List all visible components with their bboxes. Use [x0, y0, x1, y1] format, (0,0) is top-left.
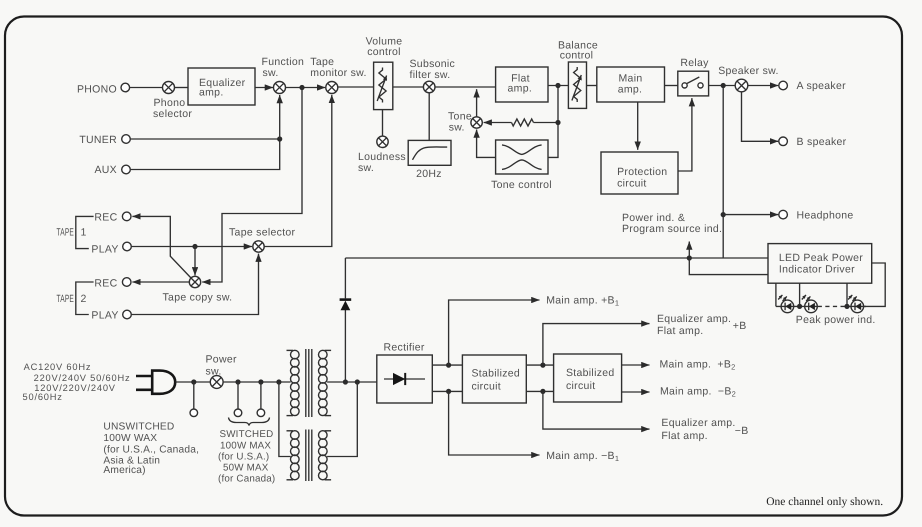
label Volume control: [366, 36, 403, 59]
junction B1 plus: [446, 363, 451, 368]
20Hz highpass filter block: [408, 140, 451, 165]
wire main amp to relay: [665, 85, 678, 87]
wire driver output left to LED rail: [775, 283, 777, 306]
detector diode branch wire lower: [344, 310, 346, 382]
junction after function sw: [299, 85, 304, 90]
transformer T2 secondary winding: [319, 431, 332, 480]
phono selector switch: [163, 82, 175, 94]
label Function sw.: [262, 56, 305, 79]
svg-text:Main amp. −B1: Main amp. −B1: [546, 450, 619, 463]
junction B1 minus: [446, 389, 451, 394]
tone control curves: [502, 145, 542, 170]
svg-text:Flat amp.: Flat amp.: [657, 325, 703, 337]
wire stabilized1 upper to stabilized2: [526, 364, 553, 366]
AC plug body: [152, 371, 175, 394]
svg-text:(for Canada): (for Canada): [218, 473, 275, 484]
main amp block: [597, 67, 665, 102]
svg-text:amp.: amp.: [508, 83, 533, 95]
wire indicator feed to LED driver: [345, 257, 768, 259]
junction primary feed: [276, 379, 281, 384]
wire function junction down to tape copy sw: [202, 88, 302, 283]
wire equalizer flat -B: [543, 391, 650, 429]
junction tape1 play branch: [192, 244, 197, 249]
20Hz response curve: [413, 147, 448, 160]
LED rail left segment: [776, 305, 818, 307]
wire to headphone jack: [723, 214, 778, 216]
wire tape selector up to tape monitor sw: [264, 95, 332, 247]
svg-text:amp.: amp.: [618, 83, 643, 95]
label Equalizer amp. Flat amp. +B: [657, 313, 747, 337]
wire rectifier lower output to stabilized1: [432, 390, 462, 392]
wire to unswitched outlet: [193, 382, 195, 409]
tape copy switch: [189, 276, 200, 287]
svg-text:sw.: sw.: [263, 67, 279, 79]
LED indicator 3: [848, 295, 864, 313]
label Flat amp.: [508, 72, 533, 94]
svg-text:Flat amp.: Flat amp.: [661, 430, 707, 442]
wire headphone branch down: [722, 88, 724, 258]
node switched AC outlet 2: [257, 409, 265, 417]
wire equalizer amp to function sw: [255, 87, 273, 89]
bracket tape1: [76, 216, 94, 248]
wire play branch down into tape copy sw: [194, 247, 196, 276]
svg-text:+B: +B: [733, 320, 747, 332]
label Power ind. and Program source ind.: [622, 212, 722, 235]
wire speaker sw to B speaker: [742, 92, 779, 142]
svg-text:100W WAX: 100W WAX: [103, 433, 157, 444]
wire primary feed to lower transformer: [279, 382, 291, 457]
svg-text:REC: REC: [94, 277, 117, 289]
svg-text:AC120V 60Hz: AC120V 60Hz: [24, 362, 92, 372]
wire main amp -B1: [449, 391, 540, 455]
node AUX input jack: [122, 165, 131, 174]
svg-text:circuit: circuit: [566, 380, 596, 392]
wire speaker sw to A speaker: [748, 85, 779, 87]
svg-text:Protection: Protection: [617, 166, 667, 178]
resistor in tone feedback: [511, 119, 533, 126]
svg-text:One channel only shown.: One channel only shown.: [766, 496, 883, 508]
svg-text:Indicator Driver: Indicator Driver: [779, 263, 855, 275]
svg-text:AUX: AUX: [95, 164, 118, 176]
svg-text:circuit: circuit: [472, 381, 502, 393]
wire to switched outlet 1: [237, 382, 239, 409]
transformer T1 core: [306, 349, 312, 417]
wire main amp +B1: [449, 300, 540, 365]
svg-text:50/60Hz: 50/60Hz: [23, 392, 63, 402]
svg-text:Peak power ind.: Peak power ind.: [796, 314, 876, 326]
wire phono jack to phono selector: [130, 87, 163, 89]
detector diode: [340, 300, 352, 311]
label Equalizer amp. Flat amp. -B: [661, 417, 748, 442]
transformer T1 secondary winding: [319, 350, 332, 415]
svg-text:Speaker sw.: Speaker sw.: [718, 65, 779, 77]
svg-text:TAPE: TAPE: [57, 227, 75, 239]
svg-text:Tape copy sw.: Tape copy sw.: [163, 291, 233, 303]
svg-text:(for U.S.A.): (for U.S.A.): [218, 451, 269, 462]
wire feedback from flat amp output branch: [534, 122, 559, 124]
wire flat amp output down to tone control: [548, 86, 558, 158]
label AC voltages: [23, 362, 131, 402]
wire flat amp to balance control: [548, 85, 568, 87]
wire power line to transformer primary: [194, 381, 291, 383]
wire protection circuit up into relay: [678, 98, 692, 171]
wire tone sw up to main line: [476, 89, 478, 117]
node TAPE2 PLAY jack: [123, 310, 132, 319]
junction LED3 feed: [844, 304, 849, 309]
junction LED1 LED2: [797, 304, 802, 309]
wire volume control to flat amp through subsonic filter sw: [393, 86, 496, 88]
junction unswitched outlet: [191, 379, 196, 384]
svg-text:PHONO: PHONO: [77, 84, 117, 96]
junction switched outlet 1: [235, 379, 240, 384]
label Main amp.: [618, 72, 643, 95]
subsonic filter switch: [423, 81, 435, 93]
junction T2 secondary tap: [355, 379, 360, 384]
svg-text:PLAY: PLAY: [91, 309, 118, 321]
svg-text:Main amp. +B2: Main amp. +B2: [660, 358, 736, 371]
node A speaker terminal: [779, 81, 788, 90]
svg-text:50W MAX: 50W MAX: [223, 462, 269, 473]
tape selector switch: [253, 241, 264, 252]
transformer T2 primary winding: [287, 431, 300, 480]
wire T2 secondary up to rectifier line: [327, 382, 357, 457]
svg-text:Stabilized: Stabilized: [566, 367, 615, 379]
stabilized circuit 2 block: [554, 354, 622, 402]
wire stabilized1 lower to stabilized2: [526, 390, 553, 392]
svg-text:A speaker: A speaker: [797, 80, 847, 92]
junction tuner aux: [277, 136, 282, 141]
svg-text:Rectifier: Rectifier: [384, 342, 425, 354]
svg-text:Main amp. −B2: Main amp. −B2: [660, 386, 736, 399]
junction tone feedback: [555, 120, 560, 125]
balance potentiometer symbol: [572, 67, 581, 102]
rectifier diode symbol: [384, 373, 425, 385]
svg-text:220V/240V 50/60Hz: 220V/240V 50/60Hz: [34, 373, 131, 383]
flat amp block: [496, 67, 548, 102]
balance control potentiometer box: [568, 62, 586, 108]
label Loudness sw.: [358, 151, 406, 174]
svg-text:20Hz: 20Hz: [416, 168, 442, 180]
svg-text:amp.: amp.: [199, 87, 224, 99]
equalizer amp block: [188, 68, 255, 105]
relay block: [678, 71, 709, 96]
svg-text:Stabilized: Stabilized: [472, 368, 521, 380]
tape monitor switch: [326, 82, 338, 94]
wire plug to power line: [175, 381, 193, 383]
junction headphone branch: [721, 83, 726, 88]
svg-text:(for U.S.A., Canada,: (for U.S.A., Canada,: [103, 444, 199, 455]
svg-text:Equalizer amp.: Equalizer amp.: [657, 313, 731, 325]
svg-text:PLAY: PLAY: [91, 243, 118, 255]
svg-text:UNSWITCHED: UNSWITCHED: [103, 422, 174, 433]
node PHONO input jack: [121, 83, 130, 92]
svg-text:sw.: sw.: [358, 162, 374, 174]
wire driver output right to LED rail: [846, 283, 848, 306]
label LED Peak Power Indicator Driver: [779, 252, 863, 276]
wire arrow up to power ind label: [688, 242, 690, 257]
AC plug prongs: [136, 376, 152, 390]
LED indicator 2: [802, 295, 818, 313]
wire function sw to tape monitor sw: [286, 87, 326, 89]
label SWITCHED block: [218, 429, 275, 484]
wire tape2 play up into tape selector: [131, 254, 258, 315]
wire tape monitor sw to volume control: [338, 86, 374, 88]
svg-text:sw.: sw.: [449, 122, 465, 134]
wire resistor into tone sw: [484, 122, 512, 124]
wire to switched outlet 2: [260, 382, 262, 409]
label Stabilized circuit 1: [472, 368, 521, 393]
wire tape1 play to tape selector: [131, 246, 252, 248]
svg-text:TAPE: TAPE: [57, 293, 75, 305]
LED rail dashed segment: [818, 305, 845, 307]
svg-text:control: control: [560, 50, 594, 62]
LED indicator 1: [778, 295, 794, 313]
label Protection circuit: [617, 166, 667, 189]
brace switched outlets: [229, 418, 270, 426]
label Stabilized circuit 2: [566, 367, 615, 392]
wire relay to speaker sw: [709, 85, 736, 87]
wire tuner to function sw branch: [130, 138, 279, 140]
wire source branch up into function sw: [279, 95, 281, 139]
svg-text:Tape selector: Tape selector: [229, 227, 296, 239]
volume control potentiometer box: [374, 62, 393, 109]
svg-text:LED Peak Power: LED Peak Power: [779, 252, 863, 264]
node headphone terminal: [779, 210, 788, 219]
wire balance control to main amp: [587, 85, 597, 87]
wire tape copy sw to tape2 rec: [132, 281, 189, 283]
svg-text:TUNER: TUNER: [79, 134, 117, 146]
label Equalizer amp.: [199, 77, 246, 99]
svg-text:selector: selector: [153, 108, 192, 120]
node unswitched AC outlet: [190, 409, 198, 417]
label Balance control: [558, 39, 598, 61]
tone switch: [471, 117, 482, 128]
node TAPE1 PLAY jack: [123, 242, 132, 251]
bracket tape2: [76, 282, 94, 315]
wire rectifier upper output to stabilized1: [432, 364, 462, 366]
wire aux joining tuner branch: [130, 139, 279, 170]
power switch: [210, 376, 223, 389]
svg-text:−B: −B: [735, 425, 749, 437]
wire subsonic sw to 20Hz filter: [428, 93, 430, 141]
wire T1 secondary to rectifier: [327, 381, 377, 383]
svg-text:Relay: Relay: [680, 57, 709, 69]
svg-text:1: 1: [81, 227, 87, 239]
svg-text:control: control: [367, 46, 401, 58]
svg-text:America): America): [103, 465, 145, 476]
junction -B branch: [540, 389, 545, 394]
svg-text:filter sw.: filter sw.: [410, 69, 451, 81]
node TUNER input jack: [122, 135, 131, 144]
svg-text:Headphone: Headphone: [797, 209, 854, 221]
svg-text:B speaker: B speaker: [797, 136, 847, 148]
speaker switch: [735, 79, 748, 92]
label Tape monitor sw.: [310, 56, 366, 79]
tone control block: [496, 140, 548, 174]
label Power sw.: [206, 353, 237, 377]
svg-text:2: 2: [81, 293, 87, 305]
label TAPE 1: [57, 227, 87, 239]
label Subsonic filter sw.: [410, 58, 456, 81]
node TAPE1 REC jack: [122, 212, 131, 221]
svg-text:100W MAX: 100W MAX: [220, 440, 271, 451]
junction +B branch: [540, 363, 545, 368]
loudness switch: [377, 136, 388, 147]
transformer T1 primary winding: [287, 350, 300, 415]
junction detector diode tap: [343, 379, 348, 384]
wire tape copy sw to tape1 rec: [132, 216, 191, 278]
protection circuit block: [601, 152, 678, 194]
label TAPE 2: [57, 293, 87, 305]
svg-text:monitor sw.: monitor sw.: [310, 67, 366, 79]
detector diode branch wire upper: [344, 258, 346, 298]
junction switched outlet 2: [258, 379, 263, 384]
wire branch to LED driver lower input: [689, 258, 768, 275]
LED rail right segment: [845, 305, 866, 307]
function switch: [274, 82, 286, 94]
wire tone control into tone sw: [477, 130, 496, 158]
svg-text:Tone control: Tone control: [491, 179, 552, 191]
node switched AC outlet 1: [234, 409, 242, 417]
junction flat amp output: [555, 83, 560, 88]
label UNSWITCHED block: [103, 422, 199, 476]
svg-text:Equalizer amp.: Equalizer amp.: [661, 417, 735, 429]
junction indicator branch: [687, 255, 692, 260]
rectifier block: [377, 355, 433, 403]
wire equalizer flat +B: [543, 324, 650, 366]
node B speaker terminal: [779, 137, 788, 146]
volume potentiometer symbol: [377, 68, 386, 103]
svg-text:Program source ind.: Program source ind.: [622, 223, 722, 235]
wire main amp +B2: [622, 364, 650, 366]
wire driver return loop: [864, 263, 886, 306]
wire driver output mid to LED rail: [799, 283, 801, 306]
wire volume control to loudness sw: [382, 110, 384, 137]
wire main amp -B2: [622, 391, 650, 393]
node TAPE2 REC jack: [122, 278, 131, 287]
LED peak power indicator driver block: [768, 244, 872, 284]
label Tone sw.: [448, 111, 472, 134]
wire main amp down to protection circuit: [637, 102, 639, 150]
svg-text:SWITCHED: SWITCHED: [220, 429, 274, 440]
transformer T2 core: [306, 430, 312, 482]
svg-text:REC: REC: [94, 212, 117, 224]
wire phono selector to equalizer amp: [175, 87, 189, 89]
svg-text:circuit: circuit: [617, 177, 647, 189]
svg-text:Power: Power: [206, 353, 237, 365]
stabilized circuit 1 block: [462, 355, 526, 403]
junction headphone row: [721, 212, 726, 217]
relay contacts and arm: [682, 77, 703, 88]
svg-text:Main amp. +B1: Main amp. +B1: [546, 295, 619, 308]
